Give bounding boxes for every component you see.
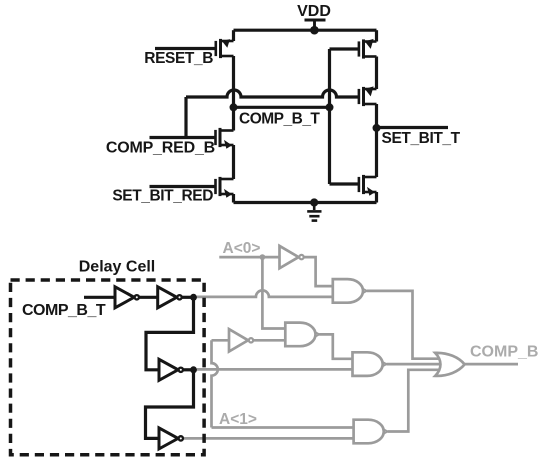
svg-text:A<1>: A<1> bbox=[219, 411, 257, 428]
delay cell dashed box bbox=[11, 280, 205, 455]
wire SET_BIT_T bbox=[377, 126, 449, 129]
inverter INV-B bbox=[229, 329, 253, 351]
wire left branch: rail to T1 top leg bbox=[232, 30, 235, 41]
wire AND3 output to OR bottom input bbox=[388, 370, 442, 432]
wire corner down to COMP_RED_B input bbox=[184, 97, 187, 138]
svg-text:RESET_B: RESET_B bbox=[144, 50, 213, 67]
wire INV1 to INV2 bbox=[139, 296, 158, 299]
inverter INV3 bbox=[159, 359, 183, 380]
ground symbol bbox=[307, 203, 321, 221]
gate AND1 bbox=[333, 279, 367, 303]
wire T2 source to T3 drain bbox=[232, 145, 235, 179]
wire T4 to T5 bbox=[375, 57, 378, 90]
VDD symbol bbox=[305, 20, 326, 30]
wire AND1 output to OR top input bbox=[367, 291, 442, 359]
gate AND3 bbox=[354, 420, 388, 444]
svg-text:COMP_B_T: COMP_B_T bbox=[239, 111, 320, 128]
wire right branch: rail to T4 bbox=[375, 30, 378, 41]
node A<0> junction dot bbox=[260, 254, 266, 260]
wire AND2 output to OR middle input bbox=[387, 363, 443, 366]
node tap1 dot bbox=[190, 294, 197, 301]
wire delay tap3 to AND3 bottom input bbox=[184, 437, 354, 440]
wire S-bend tap1 to INV3 bbox=[146, 297, 194, 370]
wire T6 gate wire bbox=[330, 182, 359, 185]
node tap2 dot bbox=[190, 366, 197, 373]
wire T6 source to ground rail bbox=[375, 192, 378, 203]
wire COMP_B_T input stub bbox=[84, 296, 115, 299]
inverter INV2 bbox=[158, 287, 182, 308]
wire T1 bottom leg down to COMP_B_T node and T2 drain bbox=[232, 56, 235, 131]
node VDD junction dot bbox=[310, 26, 319, 35]
transistor right PMOS T5 bbox=[359, 86, 377, 106]
svg-text:SET_BIT_T: SET_BIT_T bbox=[382, 130, 461, 147]
inverter INV1 bbox=[115, 287, 139, 308]
wire INV2 to tap node 1 bbox=[182, 296, 194, 299]
svg-text:COMP_B: COMP_B bbox=[470, 344, 538, 361]
wire COMP_B output bbox=[465, 363, 518, 366]
wire A<0> vertical to AND4 bbox=[262, 257, 285, 328]
wire ground rail bbox=[234, 201, 377, 204]
wire S-bend tap2 to INV4 bbox=[146, 370, 194, 439]
node ground junction dot bbox=[310, 198, 318, 206]
wire INV-B output to AND4 bottom input bbox=[253, 339, 285, 342]
svg-text:Delay Cell: Delay Cell bbox=[79, 258, 155, 275]
wire INV-B input bbox=[212, 339, 230, 342]
wire A<0> input bbox=[219, 256, 279, 259]
inverter INV-A bbox=[280, 246, 304, 268]
wire COMP_B_T node bbox=[234, 106, 330, 109]
inverter INV4 bbox=[159, 428, 183, 449]
wire VDD rail bbox=[234, 29, 377, 32]
wire cross-coupled gate wire with two hops (y=97) bbox=[186, 90, 359, 97]
wire INV3 to tap node 2 bbox=[183, 368, 193, 371]
wire T5 to SET_BIT_T node bbox=[375, 104, 378, 177]
node SET_BIT_T dot bbox=[373, 124, 381, 132]
wire INV-A output to AND1 top input bbox=[304, 257, 333, 286]
svg-text:COMP_B_T: COMP_B_T bbox=[22, 302, 106, 319]
gate OR1 bbox=[435, 353, 464, 376]
transistor RESET_B PMOS bbox=[155, 39, 234, 58]
transistor COMP_RED_B NMOS bbox=[150, 128, 234, 149]
transistor right NMOS T6 bbox=[359, 175, 377, 196]
node COMP_B_T right dot bbox=[326, 103, 334, 111]
node COMP_B_T left dot bbox=[230, 103, 238, 111]
transistor SET_BIT_RED NMOS bbox=[150, 177, 234, 198]
transistor right PMOS T4 bbox=[330, 39, 377, 59]
wire delay tap1 to AND1 bottom input (hop over A<0> vertical) bbox=[197, 290, 333, 296]
svg-text:COMP_RED_B: COMP_RED_B bbox=[106, 139, 215, 156]
wire gate vertical x=329.5 (COMP_B_T to T4/T6 gates) bbox=[328, 49, 331, 184]
wire T3 source to ground rail bbox=[232, 194, 235, 203]
svg-text:A<0>: A<0> bbox=[223, 240, 261, 257]
wire A<1> to AND3 top input bbox=[212, 426, 354, 429]
wire A<1> vertical from INV-B input down (hop over tap2 wire) bbox=[212, 340, 218, 427]
gate AND2 bbox=[353, 352, 387, 376]
gate AND4 bbox=[285, 323, 319, 347]
wire AND4 output to AND2 top input bbox=[319, 334, 352, 358]
svg-text:SET_BIT_RED: SET_BIT_RED bbox=[112, 187, 213, 204]
svg-text:VDD: VDD bbox=[297, 3, 331, 20]
wire delay tap2 to AND2 bottom input bbox=[197, 368, 353, 371]
